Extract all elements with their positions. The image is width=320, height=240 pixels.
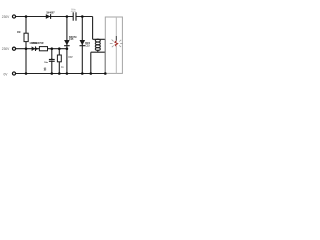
wire top rail right of C2: [76, 16, 93, 18]
svg-text:1N4007: 1N4007: [46, 11, 55, 14]
wire lamp module left lead: [104, 39, 106, 73]
terminal T3: [12, 72, 15, 75]
svg-text:C15: C15: [85, 44, 90, 47]
lamp internal lead upper: [115, 17, 117, 36]
diode D2: [32, 46, 36, 51]
svg-text:400V: 400V: [71, 11, 77, 13]
svg-text:470R: 470R: [38, 42, 44, 45]
lamp module box: [105, 17, 122, 73]
wire branch R3 vertical: [58, 49, 60, 74]
wire branch C3 vertical: [51, 49, 53, 74]
inductor coil L1 right half: [97, 39, 100, 50]
wire top rail left of C2: [16, 16, 73, 18]
wire bottom rail: [16, 73, 106, 75]
svg-text:230V: 230V: [2, 15, 10, 19]
terminal T1: [12, 15, 15, 18]
labels: [2, 15, 10, 77]
inductor coil L1: [95, 39, 98, 50]
resistor R3: [57, 55, 61, 62]
svg-text:10u: 10u: [44, 62, 48, 64]
lamp rays: [110, 40, 123, 48]
svg-text:470k: 470k: [32, 42, 38, 45]
terminal T2: [12, 47, 15, 50]
wire branch zener ZD2 vertical: [81, 17, 83, 74]
svg-text:1M: 1M: [17, 31, 20, 34]
wire drop from top rail to coil: [93, 17, 106, 40]
svg-text:15V: 15V: [68, 56, 73, 59]
neon lamp glow element: [115, 41, 118, 47]
junction dots: [25, 15, 107, 75]
wire branch zener ZD1 vertical: [66, 17, 68, 74]
svg-text:C15: C15: [69, 38, 74, 41]
resistor R1: [24, 33, 28, 41]
capacitor C3: [49, 58, 55, 61]
capacitor C2: [73, 12, 76, 20]
wire coil bottom connector: [91, 50, 106, 73]
wire middle rail: [16, 48, 67, 50]
wire branch R1 vertical: [25, 17, 27, 74]
svg-text:230V: 230V: [2, 47, 10, 51]
zener ZD2: [80, 40, 86, 46]
diode D1: [46, 14, 51, 19]
lamp internal lead lower: [115, 47, 117, 74]
lamp internal lead dark segment: [115, 36, 117, 41]
zener ZD1: [64, 40, 70, 46]
resistor R2: [39, 47, 47, 51]
